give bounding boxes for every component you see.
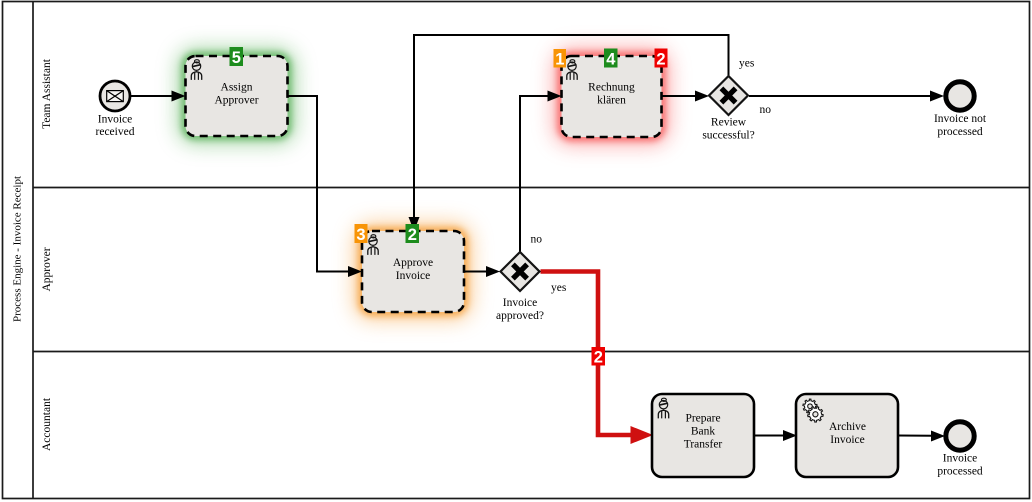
wire gateway Invoice approved (no) to Rechnung klaeren — [520, 91, 562, 253]
svg-text:Transfer: Transfer — [684, 438, 723, 450]
task Archive Invoice — [796, 394, 898, 477]
task Prepare Bank Transfer — [652, 394, 754, 477]
start event Invoice received — [96, 81, 135, 138]
wire Rechnung klaeren to gateway Review successful — [662, 91, 710, 102]
wire Assign Approver to Approve Invoice — [289, 96, 363, 277]
svg-text:Process Engine - Invoice Recei: Process Engine - Invoice Receipt — [12, 176, 24, 322]
svg-text:yes: yes — [739, 57, 755, 69]
task Assign Approver — [186, 56, 288, 136]
lane divider 2 — [33, 351, 1029, 353]
svg-text:2: 2 — [656, 51, 665, 69]
wire Approve Invoice to gateway Invoice approved — [464, 266, 500, 277]
svg-text:received: received — [96, 126, 135, 138]
task Rechnung klaeren — [562, 56, 662, 137]
wire red gateway Invoice approved (yes) to Prepare Bank Transfer — [541, 272, 654, 445]
task Approve Invoice — [362, 231, 464, 312]
svg-text:Rechnung: Rechnung — [588, 82, 635, 94]
svg-text:3: 3 — [356, 226, 365, 244]
svg-text:2: 2 — [594, 349, 603, 367]
badge 2 green on Approve Invoice — [406, 224, 420, 244]
svg-text:Invoice not: Invoice not — [934, 113, 987, 125]
svg-text:Bank: Bank — [691, 425, 716, 437]
svg-text:Assign: Assign — [221, 82, 253, 94]
glow orange (Approve Invoice) — [362, 231, 464, 312]
wire Prepare Bank Transfer to Archive Invoice — [754, 430, 797, 441]
badge red 2 on red flow — [592, 347, 606, 367]
end event Invoice processed — [937, 422, 983, 478]
wire start to Assign Approver — [131, 91, 186, 102]
svg-text:Invoice: Invoice — [830, 434, 864, 446]
wire gateway Review successful (yes) to Approve Invoice top — [409, 35, 755, 231]
glow green (Assign Approver) — [186, 56, 288, 136]
svg-text:1: 1 — [555, 51, 564, 69]
svg-text:processed: processed — [937, 466, 983, 478]
svg-text:klären: klären — [597, 95, 626, 107]
svg-text:Approver: Approver — [214, 95, 258, 107]
svg-text:4: 4 — [606, 51, 616, 69]
service gears icon Archive Invoice — [803, 399, 823, 422]
user icon Prepare Bank Transfer — [658, 398, 668, 418]
svg-text:Review: Review — [711, 117, 747, 129]
svg-text:Approve: Approve — [393, 257, 433, 269]
svg-text:Invoice: Invoice — [396, 270, 430, 282]
svg-text:processed: processed — [937, 126, 983, 138]
svg-text:approved?: approved? — [496, 310, 544, 322]
badge 1 orange on Rechnung klaeren — [554, 49, 567, 69]
svg-text:Team Assistant: Team Assistant — [41, 58, 53, 129]
pool label separator — [32, 2, 34, 499]
end event Invoice not processed — [934, 82, 987, 138]
user icon Approve Invoice — [368, 235, 378, 255]
badge 5 green on Assign Approver — [230, 47, 244, 67]
svg-text:2: 2 — [408, 226, 417, 244]
svg-text:no: no — [760, 104, 772, 116]
svg-text:Invoice: Invoice — [503, 297, 537, 309]
svg-text:Invoice: Invoice — [98, 113, 132, 125]
svg-text:Approver: Approver — [41, 247, 53, 291]
gateway Invoice approved? — [496, 252, 544, 322]
wire Archive Invoice to end Invoice processed — [898, 431, 945, 442]
svg-text:yes: yes — [551, 282, 567, 294]
gateway Review successful? — [702, 76, 754, 142]
svg-text:successful?: successful? — [702, 130, 754, 142]
badge 4 green on Rechnung klaeren — [604, 49, 618, 69]
svg-text:Archive: Archive — [829, 421, 866, 433]
svg-text:Accountant: Accountant — [41, 397, 53, 451]
user icon Rechnung klaeren — [567, 60, 577, 80]
svg-text:Prepare: Prepare — [685, 412, 720, 424]
svg-text:no: no — [531, 233, 543, 245]
badge 2 red on Rechnung klaeren — [655, 49, 668, 69]
wire gateway Review successful (no) to end Invoice not processed — [749, 91, 944, 116]
badge 3 orange on Approve Invoice — [355, 224, 368, 244]
svg-text:5: 5 — [232, 49, 241, 67]
lane divider 1 — [33, 187, 1029, 189]
svg-text:Invoice: Invoice — [943, 453, 977, 465]
glow red (Rechnung klaeren) — [562, 56, 662, 137]
user icon Assign Approver — [191, 60, 201, 80]
